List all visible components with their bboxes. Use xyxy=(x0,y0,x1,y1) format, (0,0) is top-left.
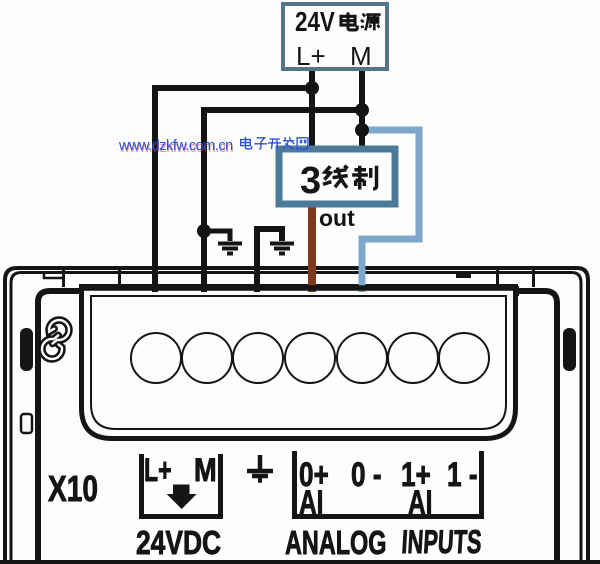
terminal cover inner line xyxy=(91,296,506,429)
svg-text:X10: X10 xyxy=(48,469,98,509)
svg-text:M: M xyxy=(194,453,217,489)
PLC casing outer edge xyxy=(5,268,588,564)
junction dot M upper xyxy=(355,103,369,117)
top tab notch left xyxy=(64,269,120,287)
terminal 7 xyxy=(439,333,489,383)
terminal 3 xyxy=(233,333,283,383)
watermark xyxy=(118,137,308,156)
terminal cover xyxy=(82,287,516,439)
watermark glyph zi xyxy=(254,138,267,149)
bottom rail bar xyxy=(0,560,600,564)
wire L+ vertical xyxy=(309,70,315,149)
svg-text:AI: AI xyxy=(299,484,323,522)
svg-text:24V: 24V xyxy=(295,7,335,38)
signal wire brown out xyxy=(308,206,316,292)
DIN clip left xyxy=(20,328,33,371)
casing step right of cover xyxy=(515,286,519,296)
junction dot ground branch xyxy=(197,224,211,238)
junction dot M lower xyxy=(355,123,369,137)
PLC earth label symbol xyxy=(247,455,273,481)
power supply box 24V xyxy=(283,4,387,69)
terminal 4 xyxy=(285,333,335,383)
watermark glyph kai xyxy=(268,139,281,149)
svg-text:3: 3 xyxy=(300,160,321,202)
24VDC terminal bracket xyxy=(139,454,223,517)
svg-text:24VDC: 24VDC xyxy=(136,525,221,561)
casing step top-left xyxy=(44,273,63,278)
arrow down xyxy=(167,485,197,510)
reference wire blue xyxy=(362,130,419,292)
terminal 1 xyxy=(131,333,181,383)
glyph dian (电) xyxy=(341,12,357,30)
svg-text:1 -: 1 - xyxy=(447,457,478,494)
cover top edge overdraw xyxy=(79,285,518,291)
svg-text:www.dzkfw.com.cn: www.dzkfw.com.cn xyxy=(118,138,233,154)
svg-text:L+: L+ xyxy=(296,41,326,71)
top tab bar right xyxy=(456,272,471,278)
terminal 5 xyxy=(337,333,387,383)
glyph yuan (源) xyxy=(361,14,381,31)
wire ground branch 1 xyxy=(204,231,230,241)
ground symbol 1 xyxy=(218,244,242,254)
connector clip icon xyxy=(42,320,69,359)
wire M branch to terminal 2 xyxy=(204,110,362,292)
junction dot L+ xyxy=(305,81,319,95)
analog inputs bracket xyxy=(292,451,484,517)
wire earth terminal 3 xyxy=(257,229,282,292)
svg-text:ANALOG: ANALOG xyxy=(285,525,386,562)
module face outline xyxy=(38,291,557,564)
terminal 2 xyxy=(182,333,232,383)
glyph xian (线) xyxy=(323,166,348,188)
wire M vertical xyxy=(359,70,365,149)
svg-text:AI: AI xyxy=(408,484,432,522)
transmitter box 3-wire xyxy=(279,149,395,204)
watermark glyph wang xyxy=(297,138,308,149)
top tab notch right xyxy=(498,269,534,287)
DIN clip right xyxy=(563,328,576,371)
watermark glyph dian xyxy=(241,137,252,149)
svg-text:M: M xyxy=(350,41,372,71)
svg-text:0 -: 0 - xyxy=(351,457,382,494)
PLC casing inner edge line xyxy=(11,273,581,564)
svg-text:INPUTS: INPUTS xyxy=(401,524,483,561)
terminal 6 xyxy=(388,333,438,383)
ground symbol 2 xyxy=(270,244,294,254)
watermark glyph fa xyxy=(283,137,294,149)
clip slot left xyxy=(21,414,32,433)
svg-text:out: out xyxy=(319,205,355,231)
svg-text:L+: L+ xyxy=(144,452,172,488)
wire L+ branch to terminal 1 xyxy=(155,88,312,292)
glyph zhi (制) xyxy=(352,166,376,190)
